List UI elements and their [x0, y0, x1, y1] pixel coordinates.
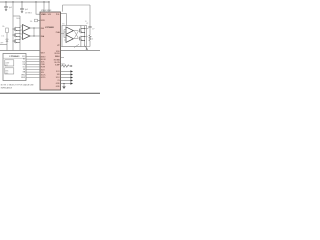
wire bus 3 — [26, 61, 40, 63]
op-amp U3 — [23, 33, 31, 40]
sub-block register B — [5, 68, 14, 74]
transistor Q6 — [79, 28, 84, 33]
wire output rail — [84, 26, 86, 44]
svg-text:SCK: SCK — [22, 61, 25, 63]
wire PHA into box — [61, 30, 65, 38]
svg-text:POL: POL — [56, 14, 60, 16]
wire diag lead — [74, 44, 79, 47]
svg-text:REG: REG — [5, 73, 8, 75]
svg-text:1µF: 1µF — [9, 7, 13, 9]
resistor R4 zigzag — [61, 65, 71, 67]
svg-text:VREG: VREG — [21, 74, 25, 76]
node dot gnd — [63, 83, 64, 84]
svg-text:GND: GND — [56, 83, 61, 85]
wire bus 7 — [26, 71, 40, 73]
ground for C1 — [5, 9, 8, 11]
svg-text:10k: 10k — [2, 26, 5, 28]
op-amp U6 — [66, 35, 73, 42]
svg-text:IMPEDANCE: IMPEDANCE — [1, 87, 13, 90]
wire below C3 — [89, 28, 91, 35]
arrow SPI 1 — [70, 70, 73, 72]
capacitor C2 — [20, 2, 24, 11]
wire feedback link — [33, 28, 35, 36]
svg-text:1µF: 1µF — [25, 9, 29, 11]
transistor Q7 — [79, 36, 84, 41]
svg-text:IB: IB — [85, 21, 87, 23]
wire corner drop to box — [66, 14, 68, 26]
wire bus 5 — [26, 66, 40, 68]
svg-text:MUX: MUX — [5, 71, 8, 73]
IC U1 main block — [40, 12, 61, 90]
arrow SPI 2 — [70, 73, 73, 75]
wire IC corner to loop — [61, 13, 67, 15]
wire SPI 4 — [61, 80, 71, 82]
node junction dots on top rail — [5, 1, 6, 2]
host box U7 — [3, 54, 26, 81]
wire SPI 5 — [61, 83, 71, 85]
wire cross-couple A — [74, 31, 78, 38]
wire ground rail right part — [61, 50, 101, 52]
op-amp U2 — [23, 25, 31, 32]
svg-text:1nF: 1nF — [92, 28, 95, 30]
amplifier box U4 — [62, 26, 87, 47]
wire VREF top pin stub — [48, 2, 50, 12]
wire U5 output — [73, 30, 78, 32]
svg-text:100k: 100k — [16, 18, 20, 20]
wire SPI 3 — [61, 77, 71, 79]
svg-text:5V REG: 5V REG — [25, 13, 32, 15]
box title separator — [3, 57, 26, 59]
wire top-right loop right vertical — [89, 5, 91, 26]
arrow SPI 5 — [70, 82, 73, 84]
wire rail A to rail B link — [13, 15, 20, 17]
wire U2 output to IC — [30, 27, 40, 29]
arrow SPI 3 — [70, 76, 73, 78]
wire triangle base bar — [22, 25, 24, 40]
node dots on outputs — [33, 27, 34, 28]
transistor Q1 — [13, 27, 20, 31]
wire U6 inputs — [64, 38, 66, 41]
svg-text:1k: 1k — [92, 39, 94, 41]
svg-text:CSB: CSB — [22, 64, 25, 66]
wire U3 output to IC — [30, 35, 40, 37]
wire ground stub — [63, 84, 65, 87]
wire SPI 1 — [61, 71, 71, 73]
wire D1 to rail — [6, 42, 8, 51]
wire Q6 drain to top — [80, 26, 82, 28]
sub-block register A — [5, 60, 14, 66]
svg-text:GND: GND — [56, 86, 61, 88]
wire Q7 source to bottom — [80, 41, 82, 46]
wire bus 8 — [26, 74, 40, 76]
transistor Q3 lower — [13, 39, 20, 43]
wire bus 2 — [26, 58, 40, 60]
arrow R4 end — [71, 65, 73, 67]
svg-text:VDD: VDD — [41, 14, 46, 16]
wire DRIVE pin stub — [38, 20, 41, 22]
arrow SPI 4 — [70, 79, 73, 81]
diode D1 — [6, 39, 8, 42]
wire bus 9 — [26, 76, 40, 78]
svg-text:ICMP: ICMP — [55, 65, 60, 67]
svg-text:VDDS: VDDS — [54, 53, 60, 55]
svg-text:SDO: SDO — [56, 77, 60, 79]
transistor Q2 — [13, 33, 20, 37]
svg-text:OPT: OPT — [0, 43, 3, 45]
wire top-right loop horizontal — [63, 4, 91, 6]
wire IBIAS stub — [61, 57, 65, 59]
capacitor C3 — [88, 27, 91, 28]
wire cross-couple B — [74, 31, 78, 38]
svg-text:SDI: SDI — [57, 74, 60, 76]
svg-text:LTC6804-1: LTC6804-1 — [10, 55, 21, 58]
wire rail to cap node — [85, 27, 89, 29]
wire U6 output — [73, 38, 78, 40]
svg-text:IBIAS: IBIAS — [55, 55, 61, 58]
svg-text:10k: 10k — [30, 21, 33, 23]
wire U2 inputs — [20, 26, 23, 30]
figure divider rule — [0, 92, 100, 94]
wire bus 4 — [26, 63, 40, 65]
svg-text:1.5k: 1.5k — [1, 35, 4, 37]
op-amp U5 — [66, 27, 73, 34]
wire U5 inputs — [64, 30, 66, 33]
resistor R5 vertical — [89, 35, 91, 41]
svg-text:NOTE 1: SELECT R FOR CABLE USE: NOTE 1: SELECT R FOR CABLE USE — [1, 84, 34, 87]
svg-text:GPIO: GPIO — [41, 77, 46, 79]
node dots on output rail — [84, 28, 85, 29]
wire bus 6 — [26, 69, 40, 71]
wire left vertical rail B — [19, 16, 21, 51]
wire mid stub — [85, 36, 88, 38]
wire R5 to VP wire — [89, 41, 91, 47]
node dots on rails — [12, 28, 13, 29]
ground for C2 — [21, 11, 24, 13]
wire top supply rail — [0, 1, 50, 3]
wire top-right loop left vertical — [62, 5, 64, 12]
svg-text:1k: 1k — [59, 59, 61, 61]
wire VREG top pin stub — [43, 2, 45, 12]
wire VP line from IC — [61, 46, 91, 48]
ground symbol bottom — [62, 86, 66, 89]
capacitor C1 — [4, 2, 8, 9]
svg-text:16-BIT: 16-BIT — [5, 63, 9, 65]
svg-text:VP: VP — [86, 23, 88, 25]
resistor R2 — [6, 28, 9, 33]
svg-text:DRIVE: DRIVE — [21, 77, 25, 79]
resistor R6 at DRIVE pin — [35, 19, 38, 22]
transistor Q8 — [85, 44, 88, 49]
svg-text:VRF: VRF — [48, 14, 51, 16]
wire VREG drop to IC — [36, 2, 40, 14]
wire option stub — [0, 44, 7, 46]
wire ground rail left part — [0, 50, 40, 52]
wire U3 inputs — [20, 34, 23, 38]
wire R2 bottom — [6, 33, 8, 39]
wire bus 1 — [26, 56, 40, 58]
Q8 arrow to rail — [86, 48, 88, 51]
svg-text:LTC6820: LTC6820 — [45, 27, 54, 29]
wire left vertical rail A — [12, 2, 14, 51]
wire SPI 2 — [61, 74, 71, 76]
